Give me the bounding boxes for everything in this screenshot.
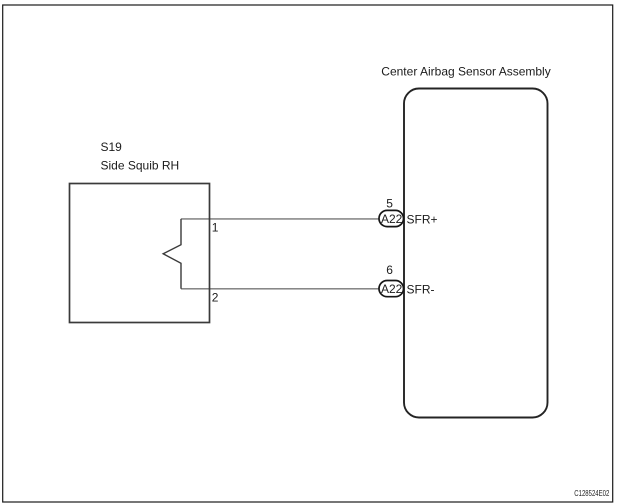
svg-text:C128524E02: C128524E02 [574, 490, 609, 498]
svg-text:6: 6 [386, 263, 393, 277]
svg-text:Center Airbag Sensor Assembly: Center Airbag Sensor Assembly [381, 64, 550, 78]
center airbag sensor assembly box U1 [404, 89, 548, 418]
connector oval A22 pin 5 [379, 210, 404, 226]
connector oval A22 pin 6 [379, 281, 404, 297]
svg-text:Side Squib RH: Side Squib RH [101, 158, 180, 172]
squib element S19 (chevron) [163, 219, 181, 289]
wire pin2 to A22-6 [181, 288, 380, 290]
svg-text:2: 2 [212, 291, 219, 305]
svg-text:1: 1 [212, 221, 219, 235]
svg-text:S19: S19 [101, 140, 123, 154]
svg-text:SFR-: SFR- [407, 282, 435, 296]
svg-text:5: 5 [386, 196, 393, 210]
wire pin1 to A22-5 [181, 218, 380, 220]
svg-text:A22: A22 [381, 212, 403, 226]
squib box S19 [70, 184, 210, 323]
svg-text:SFR+: SFR+ [407, 212, 438, 226]
svg-text:A22: A22 [381, 282, 403, 296]
